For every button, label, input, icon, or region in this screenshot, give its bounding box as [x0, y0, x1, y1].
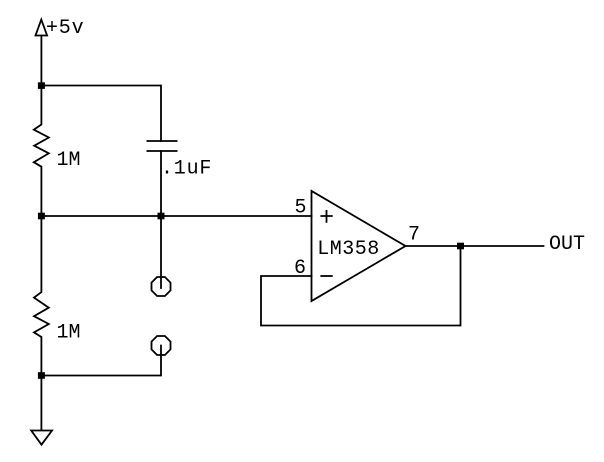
- svg-text:.1uF: .1uF: [161, 157, 212, 180]
- svg-text:1M: 1M: [57, 321, 81, 344]
- svg-text:7: 7: [408, 224, 420, 247]
- svg-text:OUT: OUT: [549, 233, 585, 256]
- svg-text:1M: 1M: [57, 149, 81, 172]
- svg-text:5: 5: [295, 197, 307, 220]
- svg-text:+5v: +5v: [46, 17, 84, 40]
- svg-text:LM358: LM358: [317, 238, 380, 261]
- svg-text:6: 6: [294, 257, 306, 280]
